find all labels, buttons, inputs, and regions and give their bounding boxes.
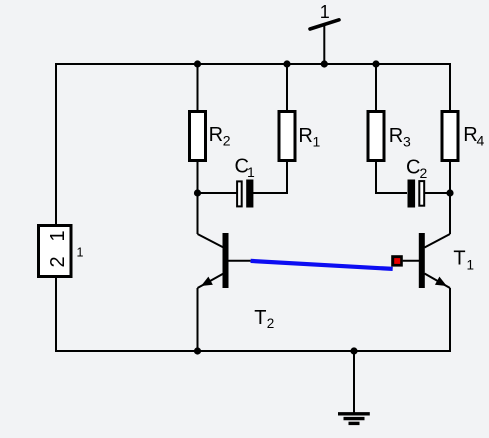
svg-text:2: 2 (267, 316, 275, 331)
wire left vertical lower (55, 277, 57, 352)
label C1 (235, 156, 256, 181)
label 1 (power) (320, 2, 330, 22)
svg-text:2: 2 (47, 256, 69, 267)
wire R3 bottom to C2 (375, 161, 407, 194)
lamp/load box pins 1-2 (39, 226, 72, 277)
svg-text:1: 1 (320, 2, 330, 22)
node B junction dot (446, 189, 453, 196)
junction dot top rail / R1 (283, 60, 290, 67)
wire top rail (56, 63, 450, 65)
resistor R4 (442, 112, 458, 161)
resistor R2 (190, 112, 206, 161)
resistor R3 (368, 112, 384, 161)
label R1 (298, 125, 320, 150)
node A junction dot (194, 189, 201, 196)
junction dot top rail / power (321, 60, 328, 67)
wire C2 to node B (425, 192, 450, 194)
svg-text:4: 4 (477, 133, 485, 149)
wire dangling blue (being drawn) (251, 261, 393, 269)
wire node A to C1 (197, 192, 238, 194)
label C2 (406, 157, 428, 182)
svg-text:T: T (254, 307, 266, 329)
junction dot top rail / R3 (372, 60, 379, 67)
svg-text:2: 2 (420, 165, 428, 181)
junction dot bottom rail / T2 emitter (194, 347, 201, 354)
capacitor C1 (237, 180, 253, 208)
svg-text:R: R (209, 124, 223, 146)
svg-text:R: R (298, 125, 312, 147)
svg-text:1: 1 (77, 246, 84, 260)
svg-text:C: C (406, 157, 420, 179)
svg-text:1: 1 (47, 230, 69, 241)
wire left vertical upper (55, 63, 57, 225)
label 1 (box) (77, 246, 84, 260)
wire R1 column top (286, 63, 288, 111)
pin hotspot red square (T1 base) (391, 255, 403, 266)
transistor T2 (198, 192, 251, 352)
wire R3 column top (375, 63, 377, 111)
ground (338, 351, 370, 423)
wire R4 column top (449, 63, 451, 111)
svg-text:3: 3 (403, 134, 411, 150)
wire R2 bottom to node (197, 161, 199, 194)
label R2 (209, 124, 231, 149)
svg-text:1: 1 (247, 164, 255, 180)
capacitor C2 (408, 180, 425, 208)
wire bottom rail (56, 350, 450, 352)
power supply terminal 1 (310, 20, 339, 64)
label T2 (254, 307, 274, 331)
junction dot bottom rail / ground (350, 347, 357, 354)
svg-text:T: T (453, 248, 465, 270)
svg-text:1: 1 (313, 134, 321, 150)
resistor R1 (279, 112, 295, 161)
wire C1 to R1 (253, 161, 287, 193)
svg-text:1: 1 (467, 258, 475, 273)
svg-text:R: R (463, 124, 477, 146)
junction dot top rail / R2 (194, 60, 201, 67)
wire R4 bottom to node B (449, 161, 451, 194)
label T1 (453, 248, 474, 273)
svg-text:R: R (389, 125, 403, 147)
transistor T1 (403, 193, 450, 352)
label R4 (463, 124, 484, 149)
label R3 (389, 125, 411, 150)
wire R2 column top (197, 63, 199, 111)
svg-text:2: 2 (223, 133, 231, 149)
